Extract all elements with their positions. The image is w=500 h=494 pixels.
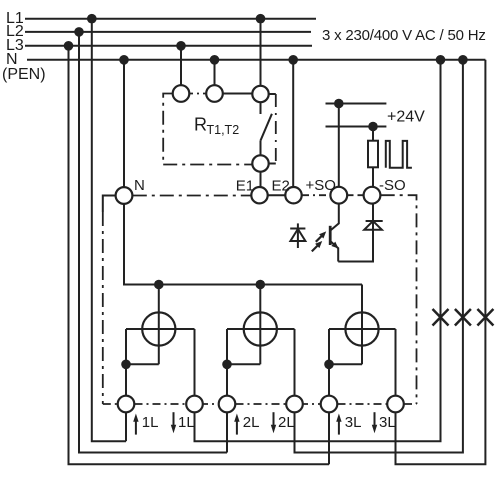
wire load 3 loop xyxy=(396,60,486,465)
measuring element M2 jog xyxy=(227,363,260,365)
svg-text:-SO: -SO xyxy=(379,177,406,194)
terminal N of meter xyxy=(116,187,133,204)
meter boundary bottom terminal row xyxy=(103,403,118,405)
meter boundary top N to E1 xyxy=(133,195,251,197)
arrow down 2L xyxy=(273,412,275,426)
load X2 mark xyxy=(455,309,471,326)
node +SO on top bar xyxy=(334,99,344,109)
meter boundary top +SO to -SO xyxy=(348,194,364,196)
node CT1 feed junction xyxy=(154,280,164,290)
wire relay feed from L3 xyxy=(180,46,182,86)
arrow down 1L xyxy=(173,412,175,426)
measuring element M1 jog xyxy=(126,363,159,365)
wire N distribution to measuring elements xyxy=(124,204,362,285)
switch linkage bracket bottom xyxy=(269,163,276,165)
light arrow 1 into phototransistor xyxy=(316,236,322,242)
wire terminal 2L input stub xyxy=(226,412,228,452)
svg-text:E2: E2 xyxy=(272,178,290,195)
terminal down-1L xyxy=(186,396,203,413)
terminal R1 of ripple relay xyxy=(173,85,190,102)
wire N supply line xyxy=(27,59,485,61)
node N-meter junction xyxy=(119,55,129,65)
switch linkage bracket top xyxy=(269,93,276,95)
terminal E2 xyxy=(285,187,301,203)
measuring element M1 current path xyxy=(126,328,195,330)
measuring element M3 jog xyxy=(329,363,362,365)
wire bottom bar to resistor xyxy=(372,127,374,141)
arrow up 2L xyxy=(236,420,238,435)
wire -SO to diode xyxy=(372,204,374,230)
svg-text:2L: 2L xyxy=(243,414,260,431)
wire M2 right to terminal xyxy=(294,329,296,396)
terminal down-2L xyxy=(286,396,303,413)
svg-text:R: R xyxy=(194,115,207,135)
diode D2 input indicator xyxy=(297,223,299,248)
measuring element M3 circle xyxy=(345,312,378,345)
wire +24V top bar xyxy=(326,103,387,105)
node N-E2 junction xyxy=(288,55,298,65)
measuring element M2 circle xyxy=(244,312,277,345)
load X3 mark xyxy=(477,309,493,326)
terminal -SO xyxy=(364,187,381,204)
wire L3 supply line xyxy=(25,45,312,47)
measuring element M1 feed xyxy=(158,285,160,365)
terminal up-1L xyxy=(118,396,135,413)
wire N drop to meter N terminal xyxy=(123,60,125,187)
wire L2 vertical to terminal 2L xyxy=(79,32,227,453)
measuring element M3 feed xyxy=(361,285,363,365)
svg-text:3L: 3L xyxy=(345,414,362,431)
phototransistor collector wire from +SO xyxy=(330,204,339,231)
wire relay feed from L1 xyxy=(260,19,262,86)
measuring element M2 current path xyxy=(227,328,295,330)
wire terminal 1L input stub xyxy=(125,412,127,441)
wire M3 right to terminal xyxy=(395,329,397,396)
wire M1 right to terminal xyxy=(194,329,196,396)
wire M3 left to terminal xyxy=(328,329,330,396)
node M1 jog junction xyxy=(121,360,131,370)
svg-text:E1: E1 xyxy=(236,178,254,195)
diode D1 under -SO xyxy=(364,221,382,230)
terminal R4 switch output xyxy=(252,155,268,171)
relay R_T1,T2 box bottom edge xyxy=(163,164,252,166)
node N-relay junction xyxy=(210,55,220,65)
switch lower stub xyxy=(260,141,262,156)
wire +SO to top bar xyxy=(338,104,340,187)
arrow up 1L xyxy=(135,420,137,435)
switch blade xyxy=(260,114,272,141)
terminal E1 xyxy=(251,187,267,203)
svg-text:2L: 2L xyxy=(278,414,295,431)
terminal R3 of ripple relay xyxy=(252,86,268,102)
pulse waveform symbol xyxy=(386,141,412,168)
node L1-drop junction xyxy=(87,14,97,24)
wire emitter to diode leg xyxy=(338,230,373,262)
node N-load2 junction xyxy=(458,55,468,65)
wire load 2 loop xyxy=(295,60,463,453)
switch contact upper stub xyxy=(260,102,262,114)
light arrow 2 into phototransistor xyxy=(312,245,318,251)
svg-text:(PEN): (PEN) xyxy=(2,66,46,83)
terminal down-3L xyxy=(387,396,404,413)
resistor R pull-up xyxy=(368,141,378,168)
wire resistor to -SO xyxy=(372,167,374,187)
wire N drop to E2 terminal xyxy=(292,60,294,187)
wire M1 left to terminal xyxy=(125,329,127,396)
meter boundary left edge xyxy=(103,196,116,213)
wire M2 left to terminal xyxy=(226,329,228,396)
phototransistor base bar xyxy=(329,226,332,245)
load X1 mark xyxy=(433,309,449,326)
node L3-drop junction xyxy=(64,41,74,51)
switch linkage dash-dot vertical xyxy=(275,94,277,164)
phototransistor emitter with arrow xyxy=(330,241,338,262)
wire R4 to E1 xyxy=(260,172,262,187)
terminal R2 of ripple relay xyxy=(206,85,223,102)
svg-text:3 x 230/400 V AC / 50 Hz: 3 x 230/400 V AC / 50 Hz xyxy=(322,27,486,44)
node L1-relay junction xyxy=(256,14,266,24)
wire E1-E2 link xyxy=(268,194,286,196)
node CT2 feed junction xyxy=(255,280,265,290)
node L2-drop junction xyxy=(74,27,84,37)
svg-text:1L: 1L xyxy=(178,414,195,431)
terminal up-2L xyxy=(219,396,236,413)
wire L2 supply line xyxy=(25,31,311,33)
arrow up 3L xyxy=(338,420,340,435)
terminal +SO xyxy=(330,187,347,204)
measuring element M3 current path xyxy=(329,328,396,330)
terminal up-3L xyxy=(321,396,338,413)
node L3-relay junction xyxy=(176,41,186,51)
wire relay feed from N xyxy=(214,60,216,86)
wire terminal 3L input stub xyxy=(328,412,330,464)
node M2 jog junction xyxy=(222,360,232,370)
svg-text:+SO: +SO xyxy=(306,177,336,194)
wire L3 vertical to terminal 3L xyxy=(69,46,330,465)
wire link R2 to R3 xyxy=(223,93,253,95)
wire L1 vertical to terminal 1L xyxy=(92,19,126,442)
measuring element M2 feed xyxy=(259,285,261,365)
wire load 1 loop xyxy=(195,60,441,441)
wire +24V bottom bar xyxy=(326,126,387,128)
svg-text:1L: 1L xyxy=(142,414,159,431)
node resistor on bottom bar xyxy=(368,122,378,132)
svg-text:N: N xyxy=(134,177,145,194)
meter boundary top E2 to +SO xyxy=(302,194,330,196)
node M3 jog junction xyxy=(324,360,334,370)
svg-text:T1,T2: T1,T2 xyxy=(207,123,240,137)
node N-load1 junction xyxy=(436,55,446,65)
wire L1 supply line xyxy=(25,18,316,20)
measuring element M1 circle xyxy=(142,312,175,345)
relay R_T1,T2 box left edge xyxy=(163,94,173,165)
boundary dash between R1 and R2 xyxy=(189,93,207,95)
svg-text:+24V: +24V xyxy=(387,109,425,126)
meter boundary top -SO to corner xyxy=(381,195,417,404)
svg-text:3L: 3L xyxy=(379,414,396,431)
arrow down 3L xyxy=(374,412,376,426)
